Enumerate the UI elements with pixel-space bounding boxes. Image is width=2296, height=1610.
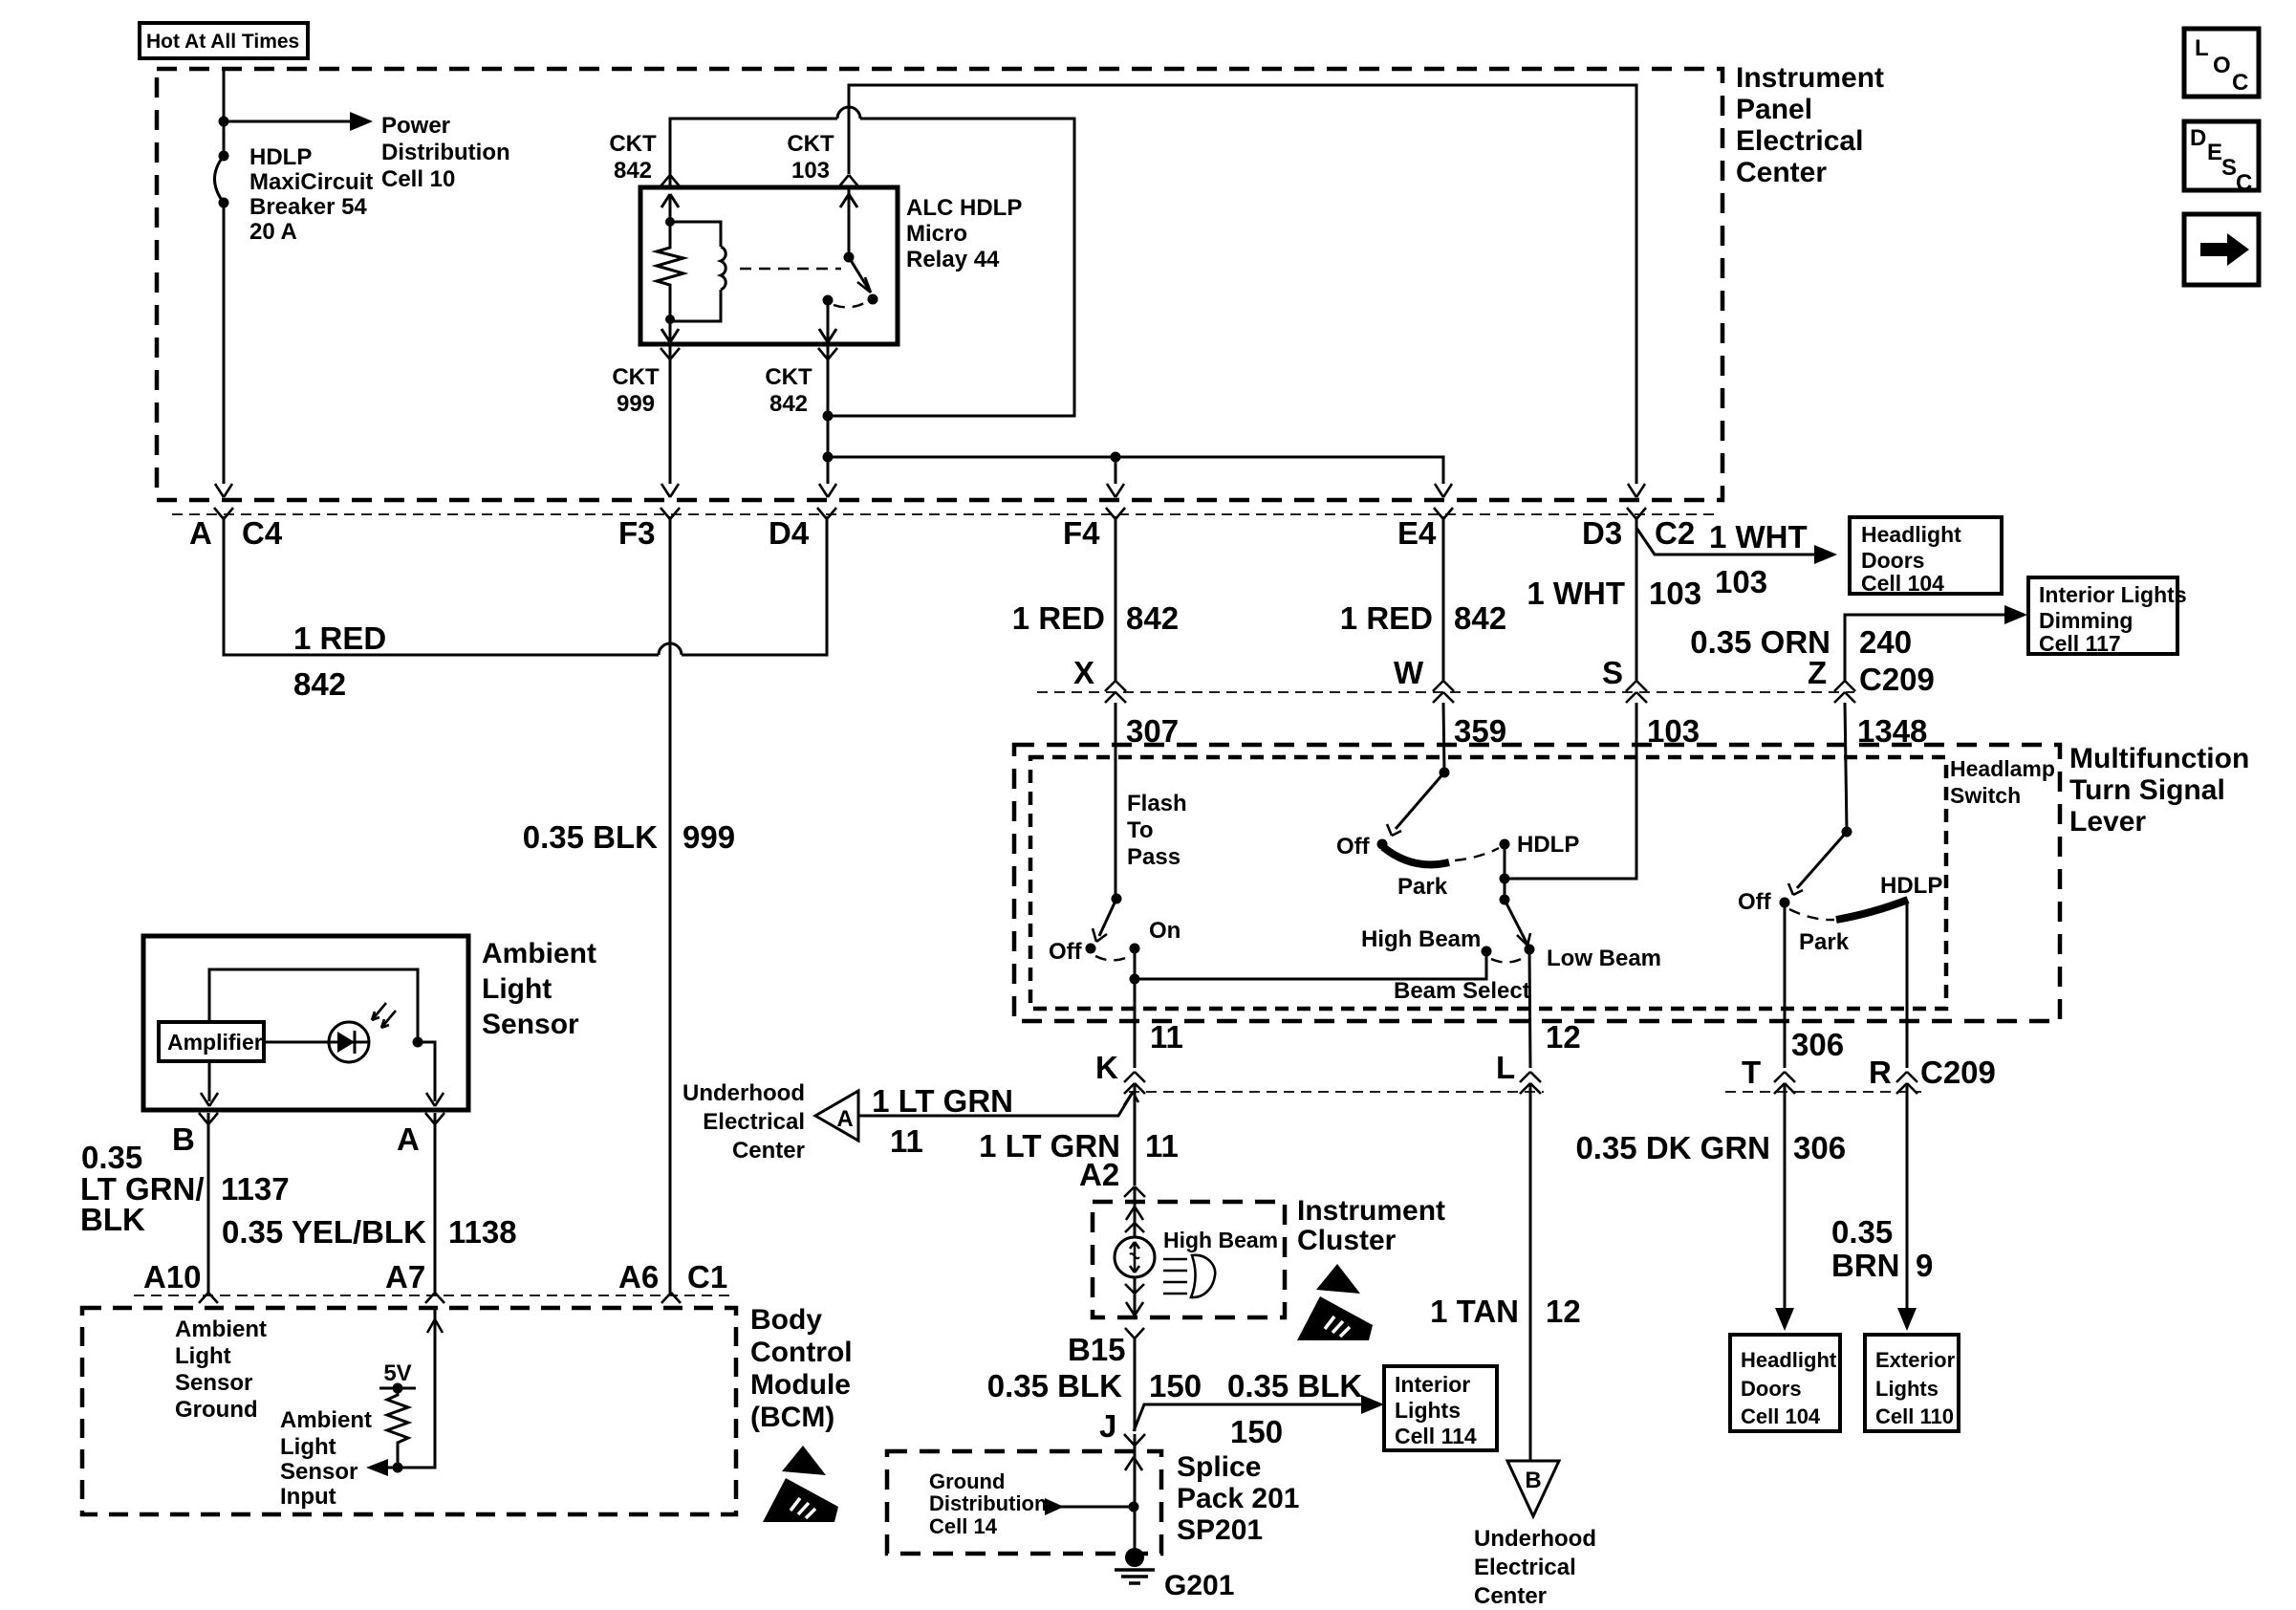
svg-text:BRN: BRN bbox=[1831, 1248, 1900, 1283]
svg-text:Distribution: Distribution bbox=[381, 140, 510, 165]
wire: CKT842 bus to F4 and E4 bbox=[828, 457, 1443, 484]
resistor: sensor pull-up bbox=[387, 1388, 408, 1468]
connector A C4 bbox=[214, 508, 233, 519]
svg-text:E4: E4 bbox=[1397, 515, 1437, 551]
wire: breaker down to C4 connector bbox=[223, 121, 226, 484]
svg-text:Flash: Flash bbox=[1127, 791, 1187, 816]
svg-text:9: 9 bbox=[1916, 1248, 1933, 1283]
svg-text:0.35 YEL/BLK: 0.35 YEL/BLK bbox=[222, 1214, 426, 1250]
svg-text:842: 842 bbox=[1126, 600, 1179, 636]
switch: headlamp Off/Park/HDLP (W column) bbox=[1443, 703, 1444, 772]
relay U44: ALC HDLP Micro Relay 44 bbox=[640, 187, 898, 344]
svg-text:Ground: Ground bbox=[175, 1397, 258, 1423]
svg-text:Input: Input bbox=[280, 1484, 336, 1510]
box: Interior Lights Cell 114 bbox=[1384, 1366, 1497, 1450]
node: CKT842 tee to F4/E4 bbox=[823, 452, 834, 463]
connector W bbox=[1433, 681, 1454, 703]
svg-text:Off: Off bbox=[1049, 939, 1083, 965]
wire: CKT103 from relay top to D3 bus bbox=[849, 85, 1636, 484]
svg-text:K: K bbox=[1095, 1050, 1118, 1085]
svg-text:Panel: Panel bbox=[1736, 94, 1812, 125]
wire: F4 drop bbox=[1115, 457, 1117, 484]
svg-text:High Beam: High Beam bbox=[1361, 926, 1481, 952]
svg-text:Ambient: Ambient bbox=[280, 1407, 372, 1433]
svg-text:D3: D3 bbox=[1582, 515, 1622, 551]
svg-text:Lights: Lights bbox=[1395, 1398, 1461, 1423]
svg-text:Micro: Micro bbox=[906, 221, 967, 247]
svg-text:306: 306 bbox=[1793, 1130, 1846, 1165]
wire: beam select bus to High Beam contact bbox=[1135, 951, 1486, 979]
svg-text:Cell 14: Cell 14 bbox=[929, 1514, 998, 1538]
node: CKT842 loop junction bbox=[823, 411, 834, 422]
svg-text:1 RED: 1 RED bbox=[293, 620, 386, 656]
svg-text:Multifunction: Multifunction bbox=[2069, 743, 2249, 774]
svg-text:W: W bbox=[1394, 655, 1424, 690]
svg-text:CKT: CKT bbox=[609, 131, 657, 157]
svg-text:B: B bbox=[172, 1121, 195, 1157]
box: Headlamp Switch (inner dashed) bbox=[1030, 757, 1946, 1009]
wire: amplifier to photodiode bbox=[264, 1041, 329, 1044]
svg-text:Dimming: Dimming bbox=[2039, 608, 2133, 633]
svg-text:To: To bbox=[1127, 817, 1154, 843]
svg-text:A: A bbox=[397, 1121, 420, 1157]
arc: flash-to-pass travel bbox=[1095, 956, 1130, 961]
relay internal: output contact to CKT842 bbox=[823, 295, 834, 306]
wire: A7 input inside BCM bbox=[387, 1308, 435, 1468]
connector K 11 bbox=[1124, 1072, 1145, 1094]
svg-text:Light: Light bbox=[175, 1343, 231, 1369]
svg-text:On: On bbox=[1149, 918, 1180, 944]
photodiode D1 bbox=[329, 1022, 369, 1062]
wire: T column from Off contact bbox=[1784, 903, 1787, 1068]
connector E4 bbox=[1434, 508, 1453, 519]
svg-text:Breaker 54: Breaker 54 bbox=[249, 194, 367, 220]
svg-text:Z: Z bbox=[1808, 655, 1827, 690]
svg-text:Light: Light bbox=[482, 973, 552, 1005]
svg-text:842: 842 bbox=[614, 158, 652, 184]
node: junction to Power Distribution bbox=[219, 117, 229, 127]
svg-text:0.35 BLK: 0.35 BLK bbox=[987, 1368, 1122, 1403]
contact: High Beam bbox=[1482, 946, 1492, 957]
wire: hot feed from Hot At All Times bbox=[223, 70, 226, 121]
svg-text:1 WHT: 1 WHT bbox=[1709, 519, 1808, 555]
connector row C209 lower (thin dashed) bbox=[1129, 1091, 1544, 1093]
svg-text:Ground: Ground bbox=[929, 1469, 1005, 1493]
svg-text:C4: C4 bbox=[242, 515, 283, 551]
triangle: Underhood Electrical Center B bbox=[1507, 1461, 1559, 1516]
box: Hot At All Times bbox=[140, 23, 308, 58]
connector B bbox=[199, 1113, 218, 1124]
icon: incident light arrows bbox=[372, 1003, 386, 1020]
svg-text:1 RED: 1 RED bbox=[1012, 600, 1105, 636]
svg-text:T: T bbox=[1742, 1055, 1761, 1090]
wire: 0.35 BLK 150 down to J bbox=[1134, 1338, 1137, 1431]
svg-text:Park: Park bbox=[1397, 874, 1448, 900]
svg-text:C209: C209 bbox=[1859, 662, 1935, 697]
wire: amplifier to pin B bbox=[208, 1061, 211, 1101]
svg-text:A: A bbox=[189, 515, 212, 551]
connector J bbox=[1124, 1434, 1145, 1446]
box: Multifunction Turn Signal Lever (outer dashed) bbox=[1014, 745, 2060, 1021]
wire: CKT842 from relay down to D4 bbox=[827, 344, 830, 484]
svg-text:Doors: Doors bbox=[1741, 1377, 1802, 1401]
svg-text:Headlight: Headlight bbox=[1741, 1348, 1837, 1372]
svg-text:J: J bbox=[1099, 1408, 1116, 1444]
svg-text:Cell 117: Cell 117 bbox=[2039, 631, 2121, 656]
svg-text:Off: Off bbox=[1336, 834, 1371, 859]
arc: thick Park segment bbox=[1383, 847, 1449, 864]
svg-text:11: 11 bbox=[1150, 1019, 1183, 1055]
svg-text:A: A bbox=[836, 1106, 853, 1132]
box: Instrument Panel Electrical Center (dashed) bbox=[157, 69, 1722, 500]
box: Exterior Lights Cell 110 bbox=[1865, 1335, 1959, 1431]
box: Instrument Cluster (dashed) bbox=[1093, 1202, 1285, 1317]
relay internal: coil in parallel bbox=[670, 222, 721, 247]
svg-text:0.35 DK GRN: 0.35 DK GRN bbox=[1575, 1130, 1770, 1165]
box: Ambient Light Sensor bbox=[143, 936, 468, 1110]
connector B15 bbox=[1125, 1328, 1144, 1338]
connector X bbox=[1105, 681, 1126, 703]
svg-text:20 A: 20 A bbox=[249, 219, 297, 245]
svg-text:A6: A6 bbox=[618, 1259, 659, 1295]
box: LOC bbox=[2184, 29, 2259, 97]
svg-text:1 RED: 1 RED bbox=[1340, 600, 1433, 636]
svg-text:S: S bbox=[1602, 655, 1623, 690]
wire: On contact down to K junction bbox=[1134, 948, 1137, 1068]
box: arrow symbol bbox=[2184, 214, 2259, 285]
svg-text:103: 103 bbox=[791, 158, 830, 184]
connector: relay switch top CKT103 bbox=[839, 175, 858, 186]
lamp: High Beam indicator bbox=[1115, 1237, 1155, 1277]
svg-text:F4: F4 bbox=[1063, 515, 1100, 551]
switch arm: beam select bbox=[1505, 900, 1527, 943]
box: Body Control Module (dashed) bbox=[82, 1308, 736, 1514]
connector R C209 bbox=[1896, 1072, 1917, 1094]
svg-text:HDLP: HDLP bbox=[249, 144, 312, 170]
svg-text:Body: Body bbox=[750, 1304, 822, 1336]
wire: arrow to Power Distribution Cell 10 bbox=[224, 120, 352, 123]
wire: L column 1 TAN 12 down to triangle B bbox=[1529, 1083, 1532, 1461]
arc: thick Park segment (right switch) bbox=[1836, 900, 1908, 920]
contact: HDLP (middle switch) bbox=[1500, 839, 1510, 850]
connector row C4/C1/C2 (thin dashed) bbox=[172, 513, 1721, 515]
svg-text:0.35 BLK: 0.35 BLK bbox=[1227, 1368, 1362, 1403]
svg-text:Cell 10: Cell 10 bbox=[381, 166, 455, 192]
connector A6 C1 bbox=[661, 1293, 681, 1303]
svg-text:SP201: SP201 bbox=[1177, 1514, 1263, 1546]
svg-text:A2: A2 bbox=[1079, 1157, 1119, 1192]
svg-text:Lever: Lever bbox=[2069, 806, 2146, 838]
svg-text:D4: D4 bbox=[769, 515, 810, 551]
wire: C2 branch 1 WHT 103 to Headlight Doors bbox=[1636, 528, 1816, 555]
box: Ground Distribution Cell 14 (dashed) bbox=[887, 1451, 1161, 1554]
box: Interior Lights Dimming Cell 117 bbox=[2028, 577, 2177, 654]
svg-text:G201: G201 bbox=[1164, 1570, 1234, 1601]
svg-text:A7: A7 bbox=[385, 1259, 425, 1295]
svg-text:150: 150 bbox=[1230, 1414, 1283, 1449]
svg-text:Instrument: Instrument bbox=[1297, 1195, 1445, 1227]
svg-text:Cell 114: Cell 114 bbox=[1395, 1424, 1477, 1448]
svg-text:Underhood: Underhood bbox=[682, 1080, 805, 1106]
svg-text:C: C bbox=[2232, 70, 2248, 96]
svg-text:CKT: CKT bbox=[787, 131, 834, 157]
wire: A to A7, 0.35 YEL/BLK 1138 bbox=[434, 1113, 437, 1293]
arrow: ground distribution tap bbox=[1045, 1498, 1064, 1515]
svg-text:103: 103 bbox=[1715, 564, 1767, 599]
svg-text:Underhood: Underhood bbox=[1474, 1526, 1596, 1552]
ground G201 bbox=[1125, 1548, 1144, 1567]
svg-text:C209: C209 bbox=[1920, 1055, 1996, 1090]
svg-text:5V: 5V bbox=[383, 1360, 411, 1386]
svg-text:Module: Module bbox=[750, 1369, 851, 1401]
wire: F4 to X, 1 RED 842 bbox=[1115, 516, 1117, 681]
svg-text:12: 12 bbox=[1546, 1019, 1581, 1055]
svg-text:Relay 44: Relay 44 bbox=[906, 247, 1000, 272]
connector F3 bbox=[661, 508, 680, 519]
svg-text:L: L bbox=[1496, 1050, 1515, 1085]
switch: Flash To Pass bbox=[1115, 703, 1117, 899]
svg-text:842: 842 bbox=[769, 391, 808, 417]
wire: CKT999 down to F3 bbox=[669, 344, 672, 484]
svg-text:Interior: Interior bbox=[1395, 1372, 1470, 1397]
svg-text:1137: 1137 bbox=[221, 1171, 290, 1207]
connector: relay coil top CKT842 bbox=[661, 175, 680, 186]
wire: 1 RED 842 from A/C4 to D4 bbox=[224, 516, 659, 655]
wire: D3 to S bbox=[1635, 516, 1638, 681]
svg-text:C: C bbox=[2236, 170, 2252, 196]
relay internal: resistor bbox=[657, 222, 683, 319]
svg-text:Cluster: Cluster bbox=[1297, 1225, 1397, 1256]
svg-text:Exterior: Exterior bbox=[1875, 1348, 1956, 1372]
svg-text:1 TAN: 1 TAN bbox=[1430, 1294, 1519, 1329]
wire: HDLP contact down to beam select pivot bbox=[1504, 844, 1506, 900]
connector S bbox=[1626, 681, 1647, 703]
contact: On bbox=[1130, 944, 1140, 954]
svg-text:Low Beam: Low Beam bbox=[1547, 946, 1661, 971]
connector row C209 (thin dashed) bbox=[1037, 691, 1854, 693]
svg-text:Amplifier: Amplifier bbox=[167, 1030, 263, 1055]
svg-text:999: 999 bbox=[682, 819, 735, 855]
switch: headlamp Off/Park/HDLP (Z column, right) bbox=[1845, 703, 1847, 832]
box: Headlight Doors Cell 104 (bottom) bbox=[1730, 1335, 1840, 1431]
svg-text:Ambient: Ambient bbox=[175, 1316, 267, 1342]
svg-text:Center: Center bbox=[1474, 1583, 1547, 1609]
wire: B to A10, 0.35 LT GRN/BLK 1137 bbox=[207, 1113, 210, 1293]
svg-text:CKT: CKT bbox=[612, 364, 660, 390]
svg-text:BLK: BLK bbox=[80, 1202, 145, 1237]
svg-text:Center: Center bbox=[732, 1138, 805, 1164]
wire: lamp to B15 with down arrow bbox=[1134, 1277, 1137, 1315]
wire: 0.35 BLK 999 from F3 down to BCM C1 bbox=[669, 516, 672, 1293]
connector L 12 bbox=[1520, 1072, 1541, 1094]
svg-text:0.35: 0.35 bbox=[1831, 1214, 1893, 1250]
svg-text:Pass: Pass bbox=[1127, 844, 1180, 870]
connector D4 bbox=[817, 508, 836, 519]
svg-text:0.35: 0.35 bbox=[81, 1140, 142, 1175]
svg-text:Headlamp: Headlamp bbox=[1950, 756, 2055, 781]
wire: sensor internal loop bbox=[209, 969, 418, 1042]
svg-text:Off: Off bbox=[1738, 889, 1772, 915]
svg-text:Control: Control bbox=[750, 1337, 853, 1368]
svg-text:Beam Select: Beam Select bbox=[1394, 978, 1530, 1004]
wire: junction to pin A bbox=[418, 1042, 435, 1101]
connector T 306 bbox=[1774, 1072, 1795, 1094]
ESD symbol (cluster) bbox=[1297, 1264, 1373, 1340]
svg-text:1138: 1138 bbox=[448, 1214, 517, 1250]
connector row BCM (thin dashed) bbox=[134, 1295, 736, 1296]
connector Z C209 bbox=[1834, 681, 1855, 703]
box: Headlight Doors Cell 104 bbox=[1850, 517, 2002, 594]
wire: K down to A2, 1 LT GRN 11 bbox=[1134, 1083, 1137, 1186]
svg-text:Distribution: Distribution bbox=[929, 1491, 1047, 1515]
breaker: HDLP MaxiCircuit Breaker 54 20 A bbox=[219, 151, 229, 162]
wire: R column 0.35 BRN 9 bbox=[1906, 1083, 1909, 1312]
svg-text:S: S bbox=[2221, 155, 2237, 181]
node: F4 tap bbox=[1111, 452, 1121, 463]
amplifier U: Amplifier bbox=[159, 1022, 264, 1061]
icon: headlamp beam bbox=[1163, 1259, 1187, 1294]
svg-text:11: 11 bbox=[890, 1123, 923, 1159]
svg-text:Headlight: Headlight bbox=[1861, 522, 1961, 547]
wire: splice pack SP201 to G201 bbox=[1134, 1434, 1137, 1556]
svg-text:B: B bbox=[1525, 1468, 1541, 1493]
wire: 0.35 BLK 150 branch to Interior Lights bbox=[1134, 1404, 1365, 1431]
svg-text:Pack 201: Pack 201 bbox=[1177, 1483, 1299, 1514]
svg-text:O: O bbox=[2213, 53, 2231, 78]
connector: relay bottom CKT999 bbox=[661, 348, 680, 359]
svg-text:X: X bbox=[1073, 655, 1094, 690]
svg-text:Turn Signal: Turn Signal bbox=[2069, 774, 2225, 806]
connector: relay bottom CKT842 bbox=[818, 348, 837, 359]
node: photodiode junction bbox=[413, 1037, 423, 1048]
connector A2 bbox=[1124, 1186, 1145, 1197]
svg-text:999: 999 bbox=[617, 391, 655, 417]
svg-text:Park: Park bbox=[1799, 929, 1850, 955]
arc: beam select travel bbox=[1491, 957, 1525, 963]
wire: 1 LT GRN 11 from triangle A to K bbox=[858, 1094, 1132, 1116]
wire into cluster with up arrow bbox=[1134, 1186, 1137, 1237]
svg-text:C1: C1 bbox=[687, 1259, 727, 1295]
svg-text:Electrical: Electrical bbox=[703, 1109, 805, 1135]
svg-text:F3: F3 bbox=[618, 515, 656, 551]
svg-text:L: L bbox=[2195, 35, 2209, 61]
svg-text:Sensor: Sensor bbox=[175, 1370, 252, 1396]
connector F4 bbox=[1106, 508, 1125, 519]
svg-text:Electrical: Electrical bbox=[1736, 125, 1863, 157]
svg-text:A10: A10 bbox=[143, 1259, 202, 1295]
svg-text:Interior Lights: Interior Lights bbox=[2039, 582, 2187, 607]
relay internal: NO contact travel arc bbox=[834, 302, 866, 307]
svg-text:150: 150 bbox=[1149, 1368, 1202, 1403]
wire: L column from Low Beam contact bbox=[1529, 949, 1530, 1068]
svg-text:Center: Center bbox=[1736, 157, 1827, 188]
svg-text:Ambient: Ambient bbox=[482, 938, 596, 969]
connector D3 C2 bbox=[1627, 508, 1646, 519]
relay internal: switch arm bbox=[840, 187, 857, 257]
svg-text:103: 103 bbox=[1649, 576, 1701, 611]
svg-text:Sensor: Sensor bbox=[482, 1009, 579, 1040]
svg-text:Sensor: Sensor bbox=[280, 1459, 357, 1485]
svg-text:Cell 104: Cell 104 bbox=[1861, 571, 1944, 596]
svg-text:Electrical: Electrical bbox=[1474, 1555, 1576, 1580]
svg-text:0.35 BLK: 0.35 BLK bbox=[523, 819, 658, 855]
svg-text:Cell 104: Cell 104 bbox=[1741, 1404, 1821, 1428]
svg-text:R: R bbox=[1869, 1055, 1892, 1090]
svg-text:Doors: Doors bbox=[1861, 548, 1924, 573]
svg-text:MaxiCircuit: MaxiCircuit bbox=[249, 169, 373, 195]
contact: Low Beam bbox=[1525, 945, 1535, 955]
svg-text:842: 842 bbox=[1454, 600, 1506, 636]
svg-text:11: 11 bbox=[1145, 1128, 1179, 1164]
relay internal: linkage dashed bbox=[740, 268, 841, 270]
wire: S 103 feed to HDLP contact bbox=[1505, 703, 1636, 879]
svg-text:C2: C2 bbox=[1655, 515, 1695, 551]
svg-text:ALC HDLP: ALC HDLP bbox=[906, 195, 1022, 221]
svg-text:Light: Light bbox=[280, 1434, 336, 1460]
wire: CKT842 loop from relay top-left to bus bbox=[670, 119, 837, 187]
connector A10 bbox=[199, 1293, 218, 1303]
relay internal: arrow up at coil leg bbox=[661, 194, 679, 222]
wire: E4 to W, 1 RED 842 bbox=[1442, 516, 1445, 681]
svg-text:HDLP: HDLP bbox=[1517, 832, 1579, 858]
connector A bbox=[425, 1113, 444, 1124]
contact: Off (flash to pass) bbox=[1086, 944, 1096, 954]
svg-text:Lights: Lights bbox=[1875, 1377, 1939, 1401]
wire: R column from HDLP contact bbox=[1906, 903, 1909, 1068]
svg-text:HDLP: HDLP bbox=[1880, 873, 1942, 899]
connector A7 bbox=[425, 1293, 444, 1303]
svg-text:B15: B15 bbox=[1068, 1332, 1126, 1367]
svg-text:D: D bbox=[2190, 125, 2206, 151]
svg-text:E: E bbox=[2207, 140, 2222, 165]
svg-text:1 WHT: 1 WHT bbox=[1527, 576, 1625, 611]
svg-text:Instrument: Instrument bbox=[1736, 62, 1884, 94]
svg-text:(BCM): (BCM) bbox=[750, 1402, 834, 1433]
svg-text:High Beam: High Beam bbox=[1163, 1228, 1278, 1252]
ESD symbol (BCM) bbox=[763, 1446, 838, 1522]
wire: 0.35 ORN 240 to Interior Lights Dimming bbox=[1845, 615, 2007, 681]
svg-text:1 LT GRN: 1 LT GRN bbox=[872, 1083, 1013, 1119]
triangle: Underhood Electrical Center A bbox=[815, 1091, 858, 1141]
svg-text:Cell 110: Cell 110 bbox=[1875, 1404, 1954, 1428]
svg-text:CKT: CKT bbox=[765, 364, 812, 390]
wire: T column 0.35 DK GRN 306 bbox=[1784, 1083, 1787, 1312]
svg-text:Power: Power bbox=[381, 113, 450, 139]
svg-text:306: 306 bbox=[1791, 1027, 1844, 1062]
svg-text:Hot At All Times: Hot At All Times bbox=[146, 31, 299, 53]
svg-text:Switch: Switch bbox=[1950, 783, 2021, 808]
svg-text:842: 842 bbox=[293, 666, 346, 702]
svg-text:Splice: Splice bbox=[1177, 1451, 1261, 1483]
node: beam select tee bbox=[1130, 974, 1140, 985]
svg-text:240: 240 bbox=[1859, 624, 1912, 660]
svg-text:12: 12 bbox=[1546, 1294, 1581, 1329]
box: DESC bbox=[2184, 121, 2259, 190]
relay internal: coil leg down arrow bbox=[661, 319, 679, 342]
